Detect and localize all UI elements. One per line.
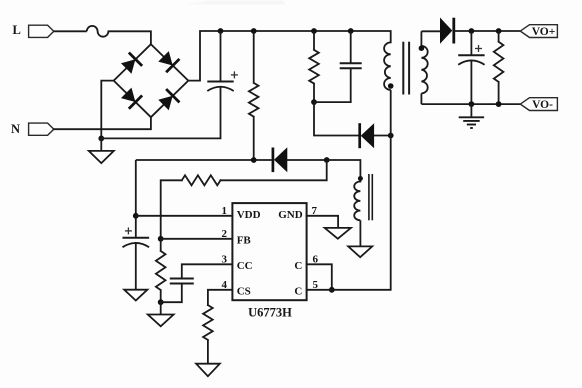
node snubber bottom junction: [311, 99, 317, 105]
bridge diode bottom-right (anode bottom vertex, cathode right): [157, 89, 179, 111]
ground symbol G5 (IC GND): [325, 228, 351, 239]
resistor R3 output load: [498, 31, 500, 42]
wire pin 5 C to drain line: [307, 136, 391, 290]
capacitor C3 VDD electrolytic: [135, 216, 137, 238]
C2 polarity + mark: [475, 48, 482, 50]
node rail / bulk cap C1: [218, 28, 224, 34]
capacitor C5 snubber: [350, 31, 352, 63]
node VO- rail / C2: [469, 101, 475, 107]
svg-text:L: L: [13, 23, 21, 37]
wire FB tap down and left: [221, 160, 327, 180]
svg-text:4: 4: [222, 279, 228, 291]
wire primary ground rail to bulk cap negative: [101, 88, 220, 139]
svg-text:CC: CC: [237, 260, 253, 272]
resistor R4 feedback lower: [160, 239, 162, 251]
T1 aux core: [368, 174, 370, 220]
node rail / snubber capacitor C5: [348, 28, 354, 34]
svg-text:VO-: VO-: [532, 99, 553, 111]
node primary ground junction: [98, 136, 104, 142]
diode D3 clamp (cathode left to snubber, anode right to drain): [358, 123, 361, 148]
wire bridge left vertex to primary ground junction: [101, 81, 113, 139]
svg-text:FB: FB: [237, 234, 252, 246]
op IC U1 body (U6773H controller): [232, 203, 306, 300]
ground symbol G1 (bridge/bulk return): [89, 151, 114, 163]
capacitor C4 compensation: [170, 278, 194, 280]
resistor R2 snubber: [313, 31, 315, 50]
node rail / snubber resistor R2: [311, 28, 317, 34]
wire L terminal to fuse: [54, 30, 87, 32]
node drain junction (primary bottom / clamp / pins 5-6): [388, 133, 394, 139]
terminal VO-: [520, 98, 557, 111]
wire pin 7 GND to ground: [307, 216, 339, 228]
svg-text:N: N: [11, 122, 20, 136]
wire VDD node horizontal (to D1 cathode): [136, 159, 272, 161]
node VO- rail / R3: [496, 101, 502, 107]
wire pin 1 VDD: [136, 215, 233, 217]
bridge diode top-right (anode top vertex, cathode right): [157, 50, 179, 72]
svg-text:3: 3: [222, 254, 228, 266]
resistor R1 startup (rail to VDD node): [253, 31, 255, 83]
bridge diode bottom-left (anode left vertex, cathode bottom): [120, 86, 142, 108]
T1 aux phase dot: [358, 176, 363, 181]
node FB pin junction: [158, 236, 164, 242]
resistor R6 feedback upper (horizontal): [182, 175, 221, 185]
wire fuse to bridge top vertex: [108, 31, 150, 44]
wire D4 cathode to VO+ terminal: [454, 30, 521, 32]
node VO+ rail / R3: [496, 28, 502, 34]
svg-text:2: 2: [222, 228, 228, 240]
wire D1 anode to aux winding top: [287, 160, 360, 182]
C1 polarity + mark: [231, 74, 238, 76]
node VO+ rail / C2: [469, 28, 475, 34]
diode D1 aux rectifier (cathode left to VDD node, anode right to aux winding): [272, 148, 275, 173]
svg-text:VDD: VDD: [237, 209, 261, 221]
C3 polarity + mark: [125, 230, 132, 232]
earth ground symbol (output common): [470, 104, 472, 117]
capacitor C2 output electrolytic: [470, 31, 472, 55]
terminal N (neutral input): [29, 123, 54, 135]
wire VDD line down to pin 1: [135, 160, 137, 216]
svg-text:1: 1: [222, 205, 228, 217]
T1 secondary phase dot: [419, 45, 425, 51]
resistor R5 current sense: [203, 305, 213, 340]
node FB ground junction: [158, 299, 164, 305]
node pins 5-6 junction: [329, 287, 335, 293]
wire pin 2 FB: [161, 238, 233, 240]
ground symbol G4 (CS resistor): [196, 364, 220, 377]
bridge rectifier diamond wires: [114, 44, 189, 117]
transformer T1 primary winding: [384, 42, 391, 90]
bridge diode top-left (anode left vertex, cathode top): [120, 53, 142, 75]
wire pin 6 C to pin5 net: [307, 264, 332, 290]
terminal VO+: [520, 25, 557, 38]
svg-text:GND: GND: [278, 209, 303, 221]
node VDD pin junction: [133, 213, 139, 219]
diode D4 output rectifier (anode left, cathode right): [440, 18, 452, 43]
transformer T1 auxiliary winding: [354, 182, 360, 221]
svg-text:C: C: [294, 285, 302, 297]
svg-text:VO+: VO+: [532, 26, 556, 38]
T1 primary phase dot: [388, 83, 394, 89]
node rail / startup resistor R1: [251, 28, 257, 34]
transformer T1 secondary winding: [420, 31, 422, 46]
svg-text:C: C: [294, 260, 302, 272]
faint scan artifact top edge: [185, 1, 286, 5]
T1 core: [402, 42, 404, 95]
ground symbol G2 (VDD cap): [124, 290, 147, 301]
wire secondary bottom VO- rail: [421, 103, 520, 105]
wire pin 3 CC to capacitor C4: [182, 264, 233, 278]
capacitor C1 bulk electrolytic: [220, 31, 222, 82]
wire secondary top to output diode: [421, 30, 440, 32]
ground symbol G6 (aux winding return): [348, 246, 372, 257]
terminal L (line input): [29, 25, 54, 37]
wire R6 to FB pin drop: [161, 180, 182, 239]
wire N terminal to bridge bottom vertex: [54, 117, 151, 129]
fuse F1: [87, 26, 109, 37]
wire pin 4 CS to sense resistor: [208, 290, 233, 305]
svg-text:U6773H: U6773H: [248, 306, 292, 320]
wire snubber bottom to clamp diode: [314, 102, 358, 135]
ground symbol G3 (FB divider): [160, 302, 162, 314]
wire bridge right vertex to VIN+ rail and transformer primary top: [188, 31, 390, 81]
svg-text:CS: CS: [237, 285, 251, 297]
node R1 bottom on VDD line: [251, 157, 257, 163]
node FB tap on aux line: [324, 157, 330, 163]
